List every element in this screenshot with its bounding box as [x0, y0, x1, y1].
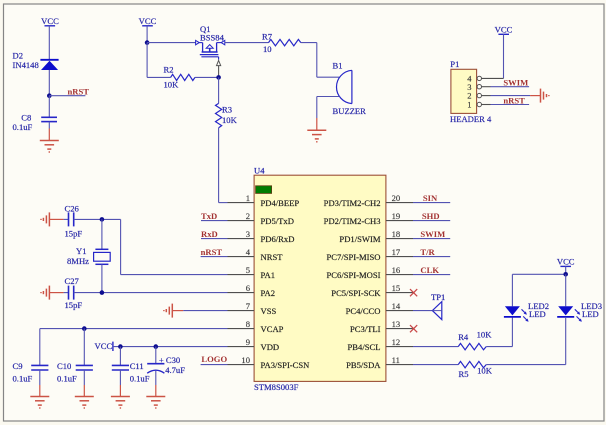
power VCC (above header P1) — [495, 25, 513, 79]
net label nRST (U4 pin 4) — [201, 247, 228, 257]
P1 pin 3 — [467, 82, 490, 92]
svg-text:VDD: VDD — [261, 342, 280, 352]
svg-text:R5: R5 — [459, 369, 469, 379]
capacitor C10 0.1uF — [57, 361, 93, 385]
power VCC (top-middle, Q1 branch) — [139, 16, 157, 43]
svg-text:PC6/SPI-MOSI: PC6/SPI-MOSI — [327, 270, 381, 280]
svg-text:8: 8 — [246, 319, 250, 329]
resistor R3 10K — [216, 77, 238, 202]
wire node to C8 — [48, 96, 50, 117]
U4 pin 4 (NRST) — [228, 247, 284, 262]
U4 pin 1 (PD4/BEEP) — [228, 193, 300, 208]
svg-text:6: 6 — [246, 283, 251, 293]
svg-text:VCC: VCC — [95, 341, 113, 351]
svg-text:10: 10 — [263, 44, 272, 54]
wire C30 column — [155, 347, 157, 364]
power VCC (top-left, D2 branch) — [41, 16, 59, 60]
no-connect X (U4 pin 15) — [410, 289, 417, 296]
svg-text:BUZZER: BUZZER — [333, 106, 367, 116]
crystal Y1 8MHz — [67, 219, 110, 292]
wire C10 column — [83, 329, 85, 366]
svg-text:15pF: 15pF — [65, 300, 83, 310]
svg-text:13: 13 — [392, 319, 401, 329]
junction crystal top — [100, 217, 105, 222]
svg-text:R4: R4 — [458, 332, 469, 342]
ground (below C11) — [111, 385, 130, 408]
svg-text:19: 19 — [392, 211, 401, 221]
LED2 LED — [504, 274, 549, 322]
U4 orientation mark (green) — [256, 186, 272, 194]
svg-text:nRST: nRST — [68, 86, 90, 96]
U4 pin 12 (PB4/SCL) — [348, 337, 413, 352]
junction crystal bottom — [100, 290, 105, 295]
svg-text:LOGO: LOGO — [201, 354, 227, 364]
svg-text:VCAP: VCAP — [261, 324, 284, 334]
svg-text:nRST: nRST — [503, 95, 525, 105]
resistor R5 10K (U4 pin 11) — [413, 361, 566, 379]
U4 pin 5 (PA1) — [228, 265, 276, 280]
net label LOGO (U4 pin 10) — [201, 354, 228, 365]
svg-text:7: 7 — [246, 301, 251, 311]
net label SHD (U4 pin 19) — [413, 211, 450, 221]
wire R7 to buzzer — [317, 43, 340, 78]
svg-text:C9: C9 — [13, 361, 23, 371]
VCC rail to LEDs — [512, 273, 565, 275]
no-connect X (U4 pin 13) — [410, 325, 417, 332]
net label CLK (U4 pin 16) — [413, 265, 450, 275]
resistor R2 10K — [147, 64, 219, 89]
svg-text:3: 3 — [246, 229, 250, 239]
ground (rotated, U4 pin 7 VSS) — [164, 304, 183, 318]
diode D2 IN4148 — [13, 51, 59, 71]
U4 pin 10 (PA3/SPI-CSN) — [228, 355, 311, 370]
svg-text:14: 14 — [392, 301, 401, 311]
svg-text:18: 18 — [392, 229, 401, 239]
power VCC (bar style, U4 pin 9 VDD) — [95, 341, 228, 351]
U4 pin 14 (PC4/CCO) — [346, 301, 413, 316]
svg-text:12: 12 — [392, 337, 401, 347]
svg-text:C26: C26 — [65, 203, 80, 213]
wire P1 pin 2 to ground — [491, 95, 531, 97]
svg-text:B1: B1 — [333, 60, 343, 70]
svg-text:PA1: PA1 — [261, 270, 276, 280]
ground (below C9) — [30, 385, 49, 408]
ground (rotated, left of C27) — [41, 286, 64, 300]
wire R4 up to LED2 — [511, 317, 513, 347]
svg-text:PC3/TLI: PC3/TLI — [350, 324, 381, 334]
U4 pin 20 (PD3/TIM2-CH2) — [324, 193, 413, 208]
ground (rotated, left of C26) — [41, 212, 64, 226]
svg-text:R2: R2 — [164, 64, 174, 74]
svg-text:PB4/SCL: PB4/SCL — [348, 342, 381, 352]
svg-text:PD6/RxD: PD6/RxD — [261, 234, 295, 244]
svg-text:1: 1 — [467, 100, 471, 110]
wire C27 to U4 pin 6 — [74, 292, 228, 294]
svg-text:PD4/BEEP: PD4/BEEP — [261, 198, 300, 208]
wire C11 column — [119, 347, 121, 366]
U4 pin 18 (PD1/SWIM) — [339, 229, 413, 244]
svg-text:VCC: VCC — [495, 25, 513, 35]
svg-text:PD1/SWIM: PD1/SWIM — [339, 234, 380, 244]
svg-text:VCC: VCC — [557, 257, 575, 267]
junction C30 tap — [154, 344, 159, 349]
svg-text:IN4148: IN4148 — [13, 60, 39, 70]
svg-text:NRST: NRST — [261, 252, 284, 262]
svg-text:20: 20 — [392, 193, 401, 203]
LED3 LED — [557, 274, 602, 322]
P1 pin 1 — [467, 100, 490, 110]
svg-text:LED: LED — [582, 309, 599, 319]
P1 pin 4 — [467, 73, 503, 83]
svg-text:11: 11 — [392, 355, 400, 365]
power VCC (LED rail) — [557, 257, 575, 275]
net label SWIM (P1 pin 3) — [491, 78, 530, 88]
svg-text:SWIM: SWIM — [503, 78, 528, 88]
svg-text:15pF: 15pF — [65, 229, 83, 239]
wire D2 to node nRST — [48, 70, 50, 96]
U4 pin 19 (PD2/TIM2-CH3) — [324, 211, 413, 226]
svg-text:5: 5 — [246, 265, 250, 275]
svg-text:PC7/SPI-MISO: PC7/SPI-MISO — [327, 252, 381, 262]
U4 pin 17 (PC7/SPI-MISO) — [327, 247, 413, 262]
svg-text:PD2/TIM2-CH3: PD2/TIM2-CH3 — [324, 216, 381, 226]
connector P1 HEADER 4 — [450, 59, 492, 124]
svg-text:C8: C8 — [21, 112, 31, 122]
wire R3 to U4 pin 1 — [219, 202, 228, 204]
junction VCC node — [145, 40, 150, 45]
svg-text:PC5/SPI-SCK: PC5/SPI-SCK — [331, 288, 381, 298]
buzzer B1 — [333, 60, 367, 116]
U4 pin 3 (PD6/RxD) — [228, 229, 295, 244]
svg-text:16: 16 — [392, 265, 401, 275]
U4 pin 16 (PC6/SPI-MOSI) — [327, 265, 413, 280]
wire U4 pin 8 VCAP rail — [40, 329, 228, 366]
svg-text:SIN: SIN — [423, 193, 438, 203]
svg-text:PA2: PA2 — [261, 288, 276, 298]
svg-text:0.1uF: 0.1uF — [130, 373, 150, 383]
capacitor C9 0.1uF — [13, 361, 49, 385]
ground (below buzzer) — [307, 118, 326, 142]
svg-text:C10: C10 — [57, 361, 71, 371]
svg-text:VSS: VSS — [261, 306, 277, 316]
net label SIN (U4 pin 20) — [413, 193, 450, 203]
svg-text:15: 15 — [392, 283, 401, 293]
U4 pin 15 (PC5/SPI-SCK) — [331, 283, 413, 298]
svg-text:T/R: T/R — [420, 247, 435, 257]
svg-text:TxD: TxD — [201, 211, 217, 221]
svg-text:17: 17 — [392, 247, 401, 257]
U4 pin 6 (PA2) — [228, 283, 276, 298]
net label TxD (U4 pin 2) — [201, 211, 228, 221]
resistor R4 10K (U4 pin 12) — [413, 330, 512, 350]
svg-text:VCC: VCC — [139, 16, 157, 26]
svg-text:P1: P1 — [450, 59, 459, 69]
junction C10 tap — [82, 326, 87, 331]
svg-text:10K: 10K — [477, 330, 493, 340]
wire LED3 down to R5 — [565, 317, 567, 365]
svg-text:1: 1 — [246, 193, 250, 203]
svg-text:PB5/SDA: PB5/SDA — [346, 360, 381, 370]
svg-text:10K: 10K — [477, 366, 493, 376]
svg-text:LED: LED — [529, 309, 546, 319]
wire C26 to corner (pin 5 net) — [74, 218, 121, 220]
junction node nRST — [47, 93, 52, 98]
resistor R7 10 — [225, 31, 317, 54]
svg-text:PD3/TIM2-CH2: PD3/TIM2-CH2 — [324, 198, 381, 208]
svg-text:SHD: SHD — [422, 211, 440, 221]
junction R2/R3/gate — [216, 75, 221, 80]
capacitor C27 15pF — [64, 276, 83, 310]
wire VSS — [183, 310, 227, 312]
svg-text:C27: C27 — [65, 276, 80, 286]
svg-text:PA3/SPI-CSN: PA3/SPI-CSN — [261, 360, 311, 370]
svg-text:PD5/TxD: PD5/TxD — [261, 216, 294, 226]
svg-text:0.1uF: 0.1uF — [13, 373, 33, 383]
test point TP1 (U4 pin 14) — [413, 292, 445, 319]
IC U4 STM8S003F body — [254, 166, 386, 392]
P1 pin 2 — [467, 91, 490, 101]
svg-text:2: 2 — [246, 211, 250, 221]
svg-text:PC4/CCO: PC4/CCO — [346, 306, 381, 316]
svg-text:TP1: TP1 — [431, 292, 445, 302]
svg-text:RxD: RxD — [201, 229, 218, 239]
net label SWIM (U4 pin 18) — [413, 229, 450, 239]
ground (rotated, right of P1) — [530, 89, 549, 103]
U4 pin 13 (PC3/TLI) — [350, 319, 413, 334]
svg-text:Y1: Y1 — [76, 246, 87, 256]
capacitor C26 15pF — [64, 203, 83, 238]
net label nRST (P1 pin 1) — [491, 95, 530, 105]
U4 pin 8 (VCAP) — [228, 319, 284, 334]
wire VCC to Q1 source — [147, 42, 196, 44]
net label T/R (U4 pin 17) — [413, 247, 450, 257]
svg-text:4.7uF: 4.7uF — [165, 365, 185, 375]
ground (below C8) — [40, 129, 59, 153]
capacitor C8 0.1uF — [13, 112, 58, 132]
U4 pin 9 (VDD) — [228, 337, 280, 352]
junction C11 tap — [118, 344, 123, 349]
wire buzzer to ground — [317, 97, 340, 119]
ground (below C10) — [75, 385, 94, 408]
svg-text:0.1uF: 0.1uF — [57, 373, 77, 383]
svg-text:R3: R3 — [222, 104, 232, 114]
svg-text:U4: U4 — [254, 166, 265, 176]
wire corner down to U4 pin 5 — [121, 219, 228, 274]
junction VCC/LED3 — [563, 272, 568, 277]
ground (below C30) — [146, 385, 165, 408]
net label nRST (left) — [49, 86, 89, 96]
svg-text:SWIM: SWIM — [420, 229, 445, 239]
svg-text:8MHz: 8MHz — [67, 256, 89, 266]
U4 pin 11 (PB5/SDA) — [346, 355, 413, 370]
svg-text:CLK: CLK — [420, 265, 439, 275]
svg-text:BSS84: BSS84 — [200, 33, 225, 43]
transistor Q1 BSS84 — [196, 24, 225, 77]
svg-text:HEADER 4: HEADER 4 — [450, 114, 492, 124]
svg-text:0.1uF: 0.1uF — [13, 122, 33, 132]
svg-text:10K: 10K — [222, 115, 238, 125]
svg-text:C11: C11 — [130, 361, 144, 371]
svg-text:9: 9 — [246, 337, 250, 347]
svg-text:VCC: VCC — [41, 16, 59, 26]
svg-text:nRST: nRST — [201, 247, 223, 257]
svg-text:STM8S003F: STM8S003F — [254, 382, 299, 392]
svg-text:4: 4 — [246, 247, 251, 257]
svg-text:10: 10 — [241, 355, 250, 365]
net label RxD (U4 pin 3) — [201, 229, 228, 239]
U4 pin 2 (PD5/TxD) — [228, 211, 294, 226]
wire VCC node down to R2 — [146, 43, 148, 78]
capacitor C11 0.1uF — [112, 361, 150, 385]
U4 pin 7 (VSS) — [228, 301, 277, 316]
capacitor C30 4.7uF (polarized) — [147, 355, 185, 385]
